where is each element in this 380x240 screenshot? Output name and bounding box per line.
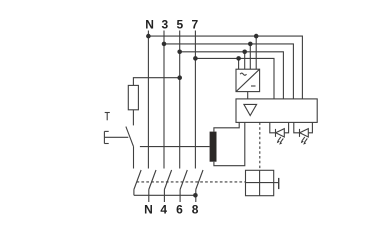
- CT secondary winding W1 (core bar): [210, 132, 217, 162]
- wire test bus: [134, 194, 196, 196]
- wire N tap to amplifier (elbow): [148, 36, 302, 99]
- switch pole 4 blade: [164, 170, 171, 190]
- resistor R1 (test resistor): [128, 85, 138, 109]
- switch pole 8 blade: [196, 170, 203, 190]
- LED H2 arrow 1: [302, 137, 305, 141]
- trip linkage to amplifier (dashed): [259, 122, 261, 170]
- node on N wire: [254, 34, 259, 39]
- svg-text:6: 6: [176, 202, 183, 216]
- LED H2 cathode bar: [299, 129, 301, 137]
- switch pole 6 blade: [180, 170, 187, 190]
- wire pole 6 blade lower: [179, 190, 181, 203]
- trip unit anchor lead: [274, 182, 279, 184]
- wire pole 3 vertical: [163, 31, 165, 169]
- node on 7 wire: [236, 56, 241, 61]
- wire pole N blade lower: [148, 190, 150, 203]
- wire pole 4 blade lower: [163, 190, 165, 203]
- LED H1 arrow 1: [278, 137, 281, 141]
- node on 3 wire: [248, 42, 253, 47]
- node 3 tap: [162, 42, 167, 47]
- LED H2 anode lead: [308, 122, 312, 132]
- switch S1 test button blade: [126, 127, 134, 147]
- node test tap on line 5: [177, 75, 182, 80]
- LED H1 bracket: [270, 122, 276, 132]
- wire 7 tap to amplifier (elbow): [195, 58, 274, 99]
- wire CT winding bottom to amplifier: [214, 122, 245, 165]
- amplifier U2 triangle: [244, 104, 257, 115]
- trip unit anchor bar: [278, 178, 280, 189]
- wire pole N vertical: [147, 31, 149, 169]
- wire stub N to rectifier: [255, 36, 257, 69]
- wire test button to lower contact: [133, 147, 135, 169]
- LED H2 triangle: [300, 129, 309, 137]
- wire rectifier to amplifier: [247, 92, 249, 99]
- wire stub 3 to rectifier: [249, 44, 251, 69]
- svg-text:N: N: [145, 18, 154, 32]
- svg-text:N: N: [144, 202, 153, 216]
- svg-text:5: 5: [177, 18, 184, 32]
- wire pole 5 vertical: [179, 31, 181, 169]
- amplifier U2 box: [236, 99, 317, 123]
- svg-text:3: 3: [162, 18, 169, 32]
- wire stub 7 to rectifier: [238, 58, 240, 69]
- wire CT winding top to amplifier: [214, 122, 239, 131]
- node 5 tap: [177, 50, 182, 55]
- LED H2 arrow 2: [305, 138, 308, 142]
- rectifier U1 DC symbol: [251, 85, 256, 87]
- wire resistor to test button contact: [132, 110, 134, 126]
- svg-text:4: 4: [160, 202, 167, 216]
- wire test conductor through CT: [140, 146, 210, 148]
- wire pole 7 vertical: [194, 31, 196, 169]
- mechanical linkage (dashed): [137, 181, 246, 183]
- wire test lower contact to bus: [133, 190, 135, 196]
- node test bus to pole 8: [193, 193, 198, 198]
- wire stub 5 to rectifier: [244, 52, 246, 69]
- wire 3 tap to amplifier (elbow): [164, 44, 293, 99]
- svg-text:8: 8: [192, 202, 199, 216]
- rectifier U1 box: [236, 69, 260, 91]
- LED H1 arrow 2: [281, 138, 284, 142]
- push-button actuator E: [104, 131, 128, 143]
- LED H2 bracket: [294, 122, 300, 132]
- switch test lower contact blade: [134, 170, 141, 190]
- label T (test): [105, 113, 110, 121]
- svg-text:7: 7: [191, 18, 198, 32]
- wire pole 8 blade lower: [195, 190, 197, 203]
- trip unit K1 cross horizontal: [246, 182, 274, 184]
- rectifier U1 AC symbol: [240, 73, 246, 75]
- wire test resistor to line 5: [133, 78, 180, 86]
- node N tap: [146, 34, 151, 39]
- trip unit K1 cross vertical: [259, 170, 261, 195]
- node 7 tap: [193, 56, 198, 61]
- trip unit K1 box: [246, 170, 274, 195]
- LED H1 cathode bar: [275, 129, 277, 137]
- wire 5 tap to amplifier (elbow): [180, 52, 284, 99]
- node on 5 wire: [242, 50, 247, 55]
- LED H1 anode lead: [284, 122, 288, 132]
- switch pole N blade: [149, 170, 156, 190]
- LED H1 triangle: [276, 129, 285, 137]
- rectifier U1 diagonal: [236, 69, 260, 91]
